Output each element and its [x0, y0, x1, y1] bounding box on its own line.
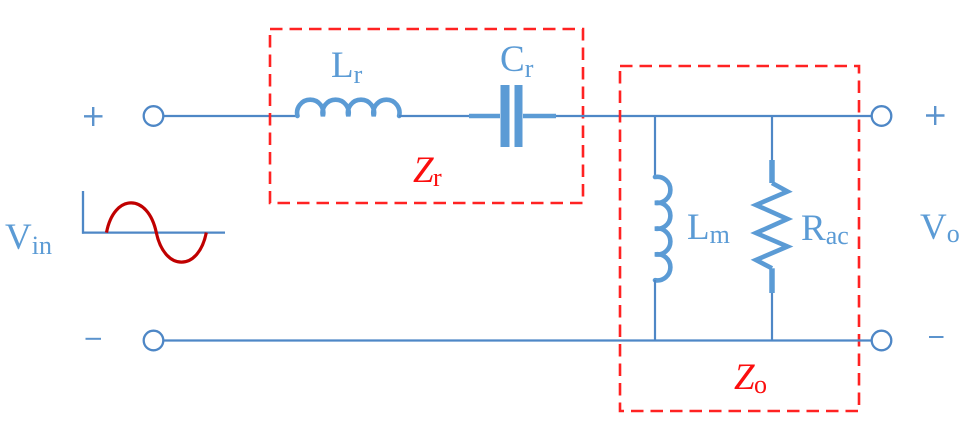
- svg-text:Z: Z: [413, 150, 434, 191]
- wire Cr to output terminal: [556, 115, 871, 117]
- plus sign right output: [926, 106, 945, 125]
- svg-text:Lr: Lr: [331, 45, 363, 89]
- svg-text:o: o: [754, 370, 767, 399]
- wire Lm lower: [654, 280, 656, 341]
- source axis vertical: [82, 191, 84, 234]
- wire Rac upper: [771, 116, 773, 162]
- svg-text:Vo: Vo: [920, 207, 960, 248]
- svg-text:r: r: [433, 163, 442, 192]
- box Zr (dashed): [270, 29, 583, 203]
- terminal top-right: [872, 106, 892, 126]
- svg-text:Lm: Lm: [687, 207, 730, 249]
- resistor Rac: [756, 160, 788, 293]
- wire bottom rail: [163, 339, 871, 341]
- wire Lm upper: [654, 116, 656, 177]
- svg-text:Z: Z: [734, 357, 755, 398]
- sine wave: [107, 203, 207, 262]
- wire top-left: [163, 115, 297, 117]
- box Zo (dashed): [620, 66, 859, 411]
- wire between Lr and Cr: [399, 115, 470, 117]
- terminal bottom-left: [144, 331, 164, 351]
- source axis horizontal: [82, 231, 225, 233]
- terminal top-left: [144, 106, 164, 126]
- svg-text:Cr: Cr: [500, 39, 534, 83]
- minus sign right output: [929, 336, 944, 338]
- inductor Lm: [655, 177, 670, 281]
- svg-text:Rac: Rac: [801, 208, 849, 250]
- minus sign left input: [86, 338, 102, 340]
- inductor Lr: [297, 100, 399, 116]
- svg-text:Vin: Vin: [5, 217, 52, 260]
- terminal bottom-right: [872, 331, 892, 351]
- capacitor Cr: [469, 85, 556, 147]
- wire Rac lower: [771, 293, 773, 341]
- plus sign left input: [84, 107, 103, 126]
